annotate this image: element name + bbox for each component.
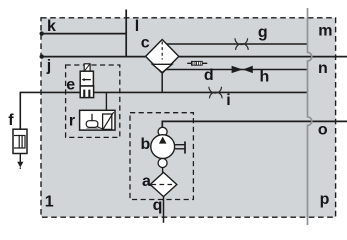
wire k (air supply line) bbox=[42, 33, 127, 35]
shutoff valve h (opposed triangles) bbox=[232, 66, 253, 73]
wire l (vertical drop) bbox=[125, 10, 127, 58]
enclosure panel (gray dashed border) bbox=[41, 18, 336, 217]
wire filter output to right edge bbox=[179, 56, 347, 58]
wire filter drain vertical bbox=[161, 73, 163, 93]
wire e-line (pilot line through valve e to gray bus) bbox=[20, 92, 307, 129]
svg-text:m: m bbox=[318, 23, 332, 40]
wire gray return bus (vertical, hops over crossing lines) bbox=[308, 8, 312, 225]
node k junction dot bbox=[40, 31, 44, 35]
quick coupling i bbox=[209, 87, 222, 99]
wire j (main supply to filter) bbox=[42, 56, 147, 58]
svg-text:h: h bbox=[260, 69, 270, 86]
compressor b (circle with up triangle and shaft) bbox=[151, 127, 185, 172]
wire intake line (diamond a down through border) bbox=[163, 196, 165, 223]
wire r drop (from e-line down to pressure switch r) bbox=[105, 92, 107, 110]
svg-text:r: r bbox=[69, 112, 75, 129]
svg-text:p: p bbox=[320, 191, 330, 208]
exhaust arrow below f bbox=[17, 162, 23, 169]
wire h branch line bbox=[164, 69, 307, 71]
enclosure box q (compressor unit, dashed) bbox=[130, 113, 193, 200]
svg-text:e: e bbox=[66, 76, 75, 93]
svg-text:q: q bbox=[153, 197, 163, 214]
filter C (diamond with separator) bbox=[146, 40, 179, 74]
orifice d (hatched restrictor) bbox=[187, 61, 207, 66]
svg-text:1: 1 bbox=[45, 193, 54, 210]
solenoid valve e bbox=[80, 64, 93, 98]
intake filter a (diamond with dashed element) bbox=[150, 172, 177, 196]
svg-text:k: k bbox=[47, 18, 56, 35]
svg-text:i: i bbox=[226, 92, 230, 109]
svg-text:g: g bbox=[258, 24, 268, 41]
wire compressor output line bbox=[162, 121, 347, 127]
svg-text:j: j bbox=[46, 58, 51, 75]
pressure switch r (horn + switch box) bbox=[80, 110, 115, 130]
test coupling f (with exhaust) bbox=[13, 129, 27, 162]
svg-text:c: c bbox=[141, 34, 150, 51]
enclosure box for e and r (dashed) bbox=[66, 65, 120, 137]
svg-text:a: a bbox=[142, 173, 151, 190]
svg-text:d: d bbox=[204, 67, 214, 84]
node j junction dot bbox=[40, 54, 44, 58]
svg-text:f: f bbox=[8, 112, 14, 129]
svg-text:l: l bbox=[135, 18, 139, 35]
svg-text:b: b bbox=[141, 136, 151, 153]
quick coupling g bbox=[235, 38, 248, 50]
wire g branch line bbox=[166, 43, 308, 45]
svg-text:o: o bbox=[318, 121, 328, 138]
svg-text:n: n bbox=[318, 60, 328, 77]
